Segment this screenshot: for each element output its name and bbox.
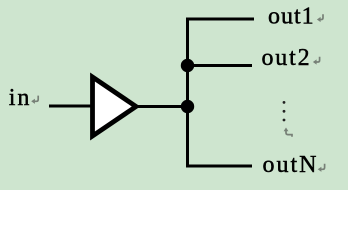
svg-text:out2: out2 [262,45,312,71]
svg-text:in: in [9,85,32,111]
svg-text:out1: out1 [268,3,315,29]
svg-text:outN: outN [263,152,319,178]
